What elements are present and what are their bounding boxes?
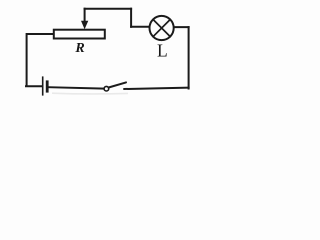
wiper arrowhead bbox=[81, 21, 88, 29]
wire: left side (top-left corner, left vertical, into battery) bbox=[26, 34, 54, 86]
wire: switch fixed contact to bottom-right corner bbox=[124, 88, 188, 89]
svg-text:R: R bbox=[74, 41, 84, 56]
faint scan smudge bbox=[52, 92, 128, 95]
battery short plate (negative) bbox=[46, 82, 49, 91]
resistor R (rheostat box) bbox=[54, 30, 105, 39]
wire: from upper vertical to lamp bbox=[131, 26, 149, 28]
wire: battery to switch bbox=[49, 87, 104, 88]
battery long plate (positive) bbox=[42, 77, 44, 95]
lamp L: bulb circle bbox=[150, 16, 174, 40]
svg-text:L: L bbox=[157, 40, 168, 60]
wire: top horizontal bbox=[85, 8, 132, 10]
switch lever (open) bbox=[109, 82, 126, 87]
wiper arrow shaft bbox=[84, 9, 86, 22]
lamp L: cross (X) bbox=[153, 20, 170, 37]
wire: lamp to right corner bbox=[174, 26, 188, 28]
wire: right vertical bbox=[188, 27, 190, 88]
wire: mid vertical down from top wire bbox=[130, 9, 132, 27]
switch pivot circle bbox=[104, 86, 109, 91]
